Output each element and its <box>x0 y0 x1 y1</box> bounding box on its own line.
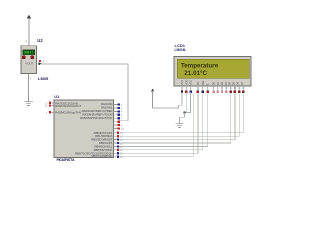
junction dot <box>183 111 185 113</box>
LCD pin numbers <box>181 87 245 90</box>
svg-text:VEE: VEE <box>189 80 193 86</box>
svg-text:RB7/T1OSI/PGD: RB7/T1OSI/PGD <box>91 154 113 158</box>
wire power to LCD VSS pin <box>153 92 182 108</box>
wire sensor VOUT to MCU (right, down, left) <box>42 64 128 121</box>
wire MCU to LCD D5 <box>120 93 235 139</box>
svg-text:D5: D5 <box>232 81 236 85</box>
svg-text:1: 1 <box>30 76 32 80</box>
sensor green display <box>23 50 35 55</box>
wire MCU to LCD D6 <box>120 93 240 136</box>
svg-text:VDD: VDD <box>184 80 188 86</box>
svg-text:26: 26 <box>120 155 124 159</box>
LCD pin stubs + state squares <box>182 86 243 93</box>
svg-text:RA5/AN4/SS/C2OUT/TCK: RA5/AN4/SS/C2OUT/TCK <box>80 116 113 120</box>
svg-text:RW: RW <box>201 80 205 85</box>
svg-text:LM016L: LM016L <box>175 48 187 52</box>
MCU left pin MCLR <box>46 111 54 115</box>
svg-text:Temperature: Temperature <box>181 62 219 69</box>
svg-text:U2: U2 <box>37 38 43 43</box>
svg-text:LM35: LM35 <box>38 76 49 81</box>
svg-text:10: 10 <box>121 127 125 131</box>
svg-text:21.01°C: 21.01°C <box>184 70 207 77</box>
temperature sensor U2 body <box>21 46 36 74</box>
svg-text:VOUT: VOUT <box>25 62 33 66</box>
svg-text:RA6/OSC2/CLKOUT: RA6/OSC2/CLKOUT <box>55 104 81 108</box>
LCD LM016L body <box>174 57 251 87</box>
wire MCU to LCD D4 <box>120 93 231 143</box>
sensor buttons (red) <box>22 56 25 59</box>
wire MCU to LCD D7 <box>120 93 244 133</box>
wire MCU to LCD RW <box>120 93 203 150</box>
power symbol P2 (near LCD) <box>151 89 155 108</box>
svg-text:D0: D0 <box>212 81 216 85</box>
MCU pin name texts: top block <box>55 102 113 121</box>
wire junction to ground <box>180 112 185 123</box>
MCU unconnected pins rows <box>114 123 125 130</box>
wire MCU to LCD E <box>120 93 208 146</box>
svg-text:3: 3 <box>25 39 27 43</box>
MCU pin name texts: bottom block <box>75 131 113 158</box>
MCU left pin OSC2/CLKOUT <box>45 104 55 108</box>
svg-text:VSS: VSS <box>180 80 184 86</box>
wire MCU to LCD row 8 <box>120 93 194 156</box>
svg-text:RS: RS <box>196 81 200 85</box>
MCU top-right pins (stubs + state squares + numbers) <box>114 103 123 121</box>
wire LCD VDD down <box>185 92 187 112</box>
svg-text:D1: D1 <box>216 81 220 85</box>
svg-text:D7: D7 <box>240 81 244 85</box>
sensor VOUT pin marker (arrow + state square) <box>38 60 44 66</box>
ground symbol (sensor) <box>24 102 32 106</box>
wire LCD VEE down-left <box>185 92 191 112</box>
MCU right wire pins (8 rows) with state squares <box>114 131 124 159</box>
MCU sensor input pin (wire from LM35) <box>114 121 120 123</box>
svg-text:D6: D6 <box>236 81 240 85</box>
LCD screen <box>177 59 249 78</box>
power symbol P1 (top left) <box>27 15 31 46</box>
ground symbol (LCD) <box>176 124 184 128</box>
svg-text:U1: U1 <box>54 94 60 99</box>
LCD vertical pin labels <box>180 80 244 86</box>
svg-text:D2: D2 <box>220 81 224 85</box>
svg-text:RA5/MCLR/Vpp/THV: RA5/MCLR/Vpp/THV <box>55 110 81 114</box>
svg-text:14: 14 <box>45 104 49 108</box>
svg-text:PIC16F877A: PIC16F877A <box>57 158 75 162</box>
wire MCU to LCD RS <box>120 93 198 153</box>
MCU left pin OSC1/CLKIN <box>45 101 55 105</box>
svg-text:D4: D4 <box>227 81 231 85</box>
svg-text:E: E <box>206 83 210 85</box>
MCU U1 body <box>54 100 114 158</box>
wire sensor bottom to ground <box>28 73 30 101</box>
